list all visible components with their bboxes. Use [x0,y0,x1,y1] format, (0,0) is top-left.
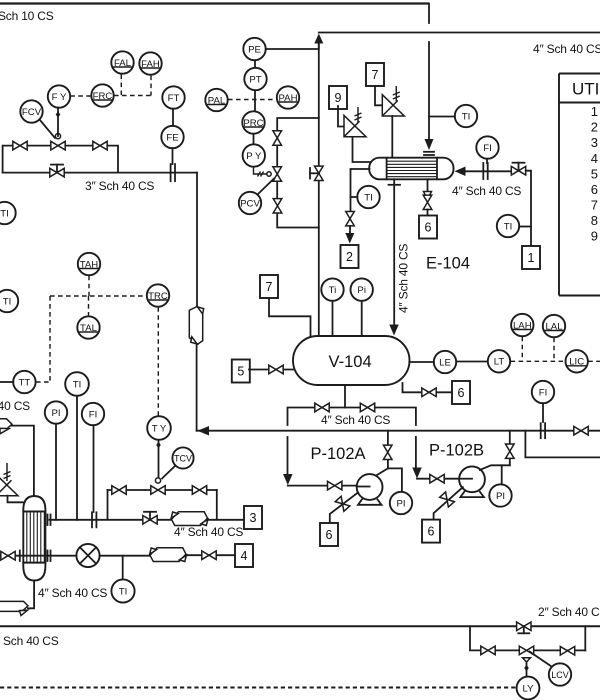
signal dashed bottom [0,687,516,689]
svg-text:F Y: F Y [52,92,67,103]
wire LCV bypass [470,626,585,650]
wire pump B suction drop [415,437,417,468]
svg-text:4″ Sch 40 CS: 4″ Sch 40 CS [397,244,411,313]
svg-text:2″ Sch 40 CS: 2″ Sch 40 CS [538,605,600,619]
svg-text:PT: PT [249,74,261,85]
wire pump B discharge [480,465,510,470]
wire box7 to PSV [375,86,382,105]
control valve FCV body [51,134,65,150]
svg-text:PAL: PAL [208,95,226,106]
wire TT tap [0,381,13,383]
wire bottom PSV outlet [8,496,23,503]
instrument LAL [543,315,565,337]
instrument PY [243,144,265,166]
wire FI stem x93 [93,425,95,512]
instrument PE [243,38,265,60]
svg-text:LAH: LAH [513,320,532,331]
utility box 7 reflux [260,275,278,298]
svg-text:PCV: PCV [240,198,260,209]
instrument FE [161,126,183,148]
utility box 7 relief [366,63,384,86]
flange E-104 top nozzle [424,152,434,155]
wire feed pennant line [11,426,34,495]
wire header branch right [525,431,600,458]
instrument TAL [77,316,99,338]
signal dashed PAL-PAH [228,99,276,101]
arrow up into overhead line [314,34,323,44]
wire vessel right nozzle to LE [409,361,433,363]
wire PRC-PY stem [253,134,255,144]
wire inlet from corner x531 [526,171,531,246]
wire PT-PRC stem [254,90,256,111]
vessel V-104 [293,336,410,385]
valve gate LCV right [560,647,574,656]
valve globe bottom main [517,622,531,633]
svg-text:FI: FI [539,387,548,398]
svg-text:LE: LE [439,357,451,368]
wire LCV signal to LY [526,662,528,677]
instrument LAH [511,314,533,336]
control valve TCV body [151,478,165,494]
spring bottom PSV [6,463,8,481]
wire FE to orifice [172,148,174,164]
spring PSV-7 [395,86,397,102]
instrument FI E104 [476,136,498,158]
wire TI stem x77 [76,396,78,520]
wire pump discharge header y430 [197,430,600,432]
wire FI stem [486,159,488,163]
svg-text:1: 1 [528,251,535,265]
instrument TI x77 [65,372,89,396]
instrument PI x56 [45,401,67,423]
svg-text:TCV: TCV [174,453,192,463]
valve gate pump B discharge [506,444,515,458]
heat exchanger E-104 shell [369,158,453,180]
svg-text:6: 6 [458,386,465,400]
signal diamond FY [56,111,61,117]
instrument PT [244,68,266,90]
arrow inlet into E-104 [455,167,466,177]
wire bottom product line 2in [0,625,600,627]
arrow down into E-104 [425,139,434,150]
wire pump B drain [434,487,463,519]
svg-text:TI: TI [364,192,373,203]
svg-text:TAH: TAH [80,259,99,270]
wire Pi stem [361,301,363,336]
svg-text:FAL: FAL [114,58,132,69]
wire FT-FE stem [172,109,174,126]
svg-text:TI: TI [73,379,82,390]
valve gate pump A discharge [383,445,392,459]
flange exchanger left nozzle [19,551,21,562]
valve gate header right [574,426,588,435]
wire TI stub [429,116,455,118]
wire to box6 [427,210,429,216]
utility box 6 pump B [422,520,440,543]
pump P-102A [357,474,383,505]
svg-text:8: 8 [591,213,598,228]
svg-text:3: 3 [250,511,257,525]
instrument LIC [566,350,588,372]
flange E-104 bottom-left nozzle [389,184,401,186]
svg-text:E-104: E-104 [426,255,470,273]
instrument TI on drop line [455,105,477,127]
svg-text:9: 9 [591,229,598,244]
valve gate suction header left [315,403,329,412]
wire LE-LT [456,361,487,363]
pump P-102B [459,466,485,497]
svg-text:3″ Sch 40 CS: 3″ Sch 40 CS [85,179,154,193]
svg-text:7: 7 [266,280,273,294]
wire TI drop [122,556,124,580]
valve gate upper-left [13,141,27,150]
instrument TI bottom [111,579,134,602]
arrow open down [424,192,432,200]
svg-text:TI: TI [3,296,12,307]
arrow down into box2 [345,233,354,244]
instrument TI left y301 [0,290,18,312]
valve gate E104 inlet w/ handle [511,163,525,175]
wire FCV bypass upper line [3,146,118,173]
wire E-104 bottom-left to V-104 [393,179,395,326]
svg-text:7: 7 [372,68,379,82]
arrow pump B suction [412,468,422,479]
wire PCV actuator link [258,179,275,195]
signal dashed vertical x50 [49,296,51,382]
valve gate pump B drain [440,492,455,507]
orifice flange FI E104 [483,163,487,179]
control valve PCV body [273,167,282,181]
wire PE-PT stem [254,60,256,68]
svg-text:LT: LT [494,357,505,368]
utility box 6 under E-104 [419,216,437,239]
signal dashed TT stub [36,381,50,383]
relief valve PSV-7 [382,95,404,116]
svg-text:TI: TI [119,586,128,597]
wire filter to header elbow [196,344,198,431]
valve globe bottoms [143,512,157,524]
wire after mixer [100,555,151,557]
svg-text:FAH: FAH [141,59,160,70]
svg-text:FI: FI [483,143,492,154]
wire E-104 inlet from right [464,170,512,172]
wire PI stem x56 [55,424,57,520]
svg-text:2: 2 [346,250,353,264]
instrument FI y392 [532,381,554,403]
svg-text:1: 1 [591,104,598,119]
signal dashed FAL drop [120,75,122,96]
svg-text:FCV: FCV [22,107,42,118]
wire overhead to E-104 drop x429 upper [428,4,430,24]
svg-text:V-104: V-104 [329,353,372,371]
mixer circle-X [76,544,99,567]
wire pump A drain [330,493,358,523]
wire E-104 bottom-right branch [427,179,429,192]
orifice flange header FI [541,423,545,438]
wire vessel drain to box6 [403,383,452,392]
signal dashed TRC to TY [157,307,159,416]
instrument LE [434,351,456,373]
valve gate suction header right [360,403,374,412]
svg-text:5: 5 [237,364,244,378]
wire E-104 left outlet to box2 line [351,169,370,212]
wire vessel bottom outlet [344,385,346,408]
svg-text:UTI: UTI [572,80,599,99]
signal dashed TAL rise [88,296,90,316]
inline mixer hexagon 1 [171,512,208,526]
svg-text:4″ Sch 40 CS: 4″ Sch 40 CS [174,525,243,539]
wire Ti stem [332,301,334,336]
svg-text:LY: LY [522,683,534,694]
wire TCV actuator link [162,466,176,479]
control valve LCV body [519,646,533,655]
signal dashed FRC to FAL FAH [114,95,151,97]
vertical exchanger shell [23,496,45,581]
instrument TRC [147,284,169,306]
svg-text:PE: PE [248,44,261,55]
svg-text:Sch 40 CS: Sch 40 CS [3,634,59,648]
wire TCV station main y490 [108,489,217,491]
instrument FY [48,85,70,107]
wire FI stem to orifice [542,403,544,422]
svg-text:TRC: TRC [148,291,168,302]
valve gate before box4 [202,551,216,560]
svg-text:Sch 10 CS: Sch 10 CS [0,9,54,23]
instrument TI at E-104 outlet [357,186,379,208]
svg-text:P Y: P Y [246,151,262,162]
instrument Pi vessel [351,278,373,300]
wire top feed line 2in Sch10 [0,2,429,4]
wire bottom suction header [288,408,416,426]
actuator circle PCV valve [267,172,271,176]
svg-text:6: 6 [591,182,598,197]
svg-text:TT: TT [19,377,31,388]
svg-text:LIC: LIC [569,357,584,368]
utility box 3 [244,506,262,529]
wire valve to arrow [349,226,351,233]
signal dashed LAH drop [521,337,523,362]
valve gate pump B suction [430,474,444,483]
arrow pump A suction [283,474,293,485]
stream flag pennant top [0,419,12,434]
wire box5 to vessel [249,369,294,371]
svg-text:LCV: LCV [551,670,569,680]
signal dashed horizontal y296 [50,295,146,297]
utility box 6 vessel drain [452,381,470,404]
valve gate TCV left [112,486,126,495]
utility box 9 [329,86,347,109]
wire pump A discharge [377,468,402,491]
svg-text:FT: FT [168,93,180,104]
signal dashed TAH drop [88,276,90,296]
relief valve bottom vessel [0,474,18,495]
svg-text:PRC: PRC [243,118,263,129]
valve gate under E-104 [423,195,432,209]
wire PI B stem [501,465,503,484]
valve gate pump A suction [328,481,342,490]
wire PCV bypass [277,118,319,131]
svg-text:Pi: Pi [357,285,366,296]
wire pump A suction drop [287,437,289,474]
wire TI stub3 [519,226,531,228]
utility box 5 [232,360,250,383]
instrument FT [162,86,184,108]
svg-text:P-102B: P-102B [429,442,484,460]
wire TCV bypass risers [107,490,109,520]
wire PSV-9 outlet [353,137,370,162]
instrument TAH [78,253,100,275]
svg-text:4″ Sch 40 CS: 4″ Sch 40 CS [533,42,600,56]
svg-text:4″ Sch 40 CS: 4″ Sch 40 CS [452,184,521,198]
valve gate upper-right [93,141,107,150]
instrument PAH [277,86,299,108]
valve gate vessel drain [422,388,436,397]
svg-text:PI: PI [396,498,405,509]
signal dashed LAL drop [553,338,555,362]
wire PY signal to PCV valve [254,167,267,174]
arrow header into elbow [198,426,210,436]
wire pump B suction horizontal [417,478,460,480]
instrument FRC [91,84,113,106]
wire box9 to PSV [338,106,344,127]
valve gate TCV right [192,486,206,495]
wire box7b to vessel [269,298,311,336]
wire main riser x319 [318,40,320,336]
valve gate bypass bottom [273,199,282,213]
instrument LY [517,677,540,700]
instrument Ti vessel [321,278,343,300]
arrow down into V-104 top [389,325,399,336]
svg-text:9: 9 [335,91,342,105]
instrument TI left edge [0,202,16,224]
svg-text:FI: FI [89,409,98,420]
svg-text:4: 4 [591,151,598,166]
svg-text:PI: PI [51,408,60,419]
wire PSV-7 outlet to E-104 [391,116,393,157]
svg-text:6: 6 [428,524,435,538]
svg-text:TAL: TAL [80,323,98,334]
wire FY signal to valve [57,108,59,136]
orifice flange FI bottom [92,512,96,527]
valve globe lower bypass [50,165,64,177]
wire pump A suction horizontal [288,485,357,487]
valve gate main riser w/ side handle [310,166,323,180]
signal diamond TY [156,442,161,448]
flange exchanger upper right nozzle [48,515,51,526]
instrument TT [13,371,35,393]
utility box 4 [235,544,253,567]
svg-text:TI: TI [504,221,513,232]
signal dashed LIC right [588,360,600,362]
wire exchanger bottom outlet [28,581,34,609]
signal dashed LT-LIC [511,360,566,362]
wire TY signal down [158,440,160,477]
instrument PCV [239,192,261,214]
wire overhead vapor line 4in [319,32,600,34]
instrument PI pump B [489,484,511,506]
utility box 6 pump A [320,523,338,546]
instrument PRC [242,111,264,133]
svg-text:6: 6 [326,528,333,542]
svg-text:4″ Sch 40 CS: 4″ Sch 40 CS [321,413,390,427]
svg-text:TI: TI [0,208,9,219]
svg-text:P-102A: P-102A [311,445,366,463]
orifice flange FE [171,164,175,181]
instrument FAL [111,51,133,73]
svg-text:PAH: PAH [278,93,297,104]
valve gate pump A drain [335,496,350,511]
instrument PI pump A [390,492,412,514]
instrument FAH [139,52,161,74]
svg-text:5: 5 [591,166,598,181]
utility box 1 [522,246,540,269]
instrument TCV [172,447,193,468]
instrument LT [488,350,510,372]
svg-text:7: 7 [591,197,598,212]
actuator funnel LCV [523,658,531,662]
wire coolant line y555.5 [0,555,77,557]
valve gate box5 line [269,365,283,374]
svg-text:FRC: FRC [93,91,113,102]
svg-text:6: 6 [425,220,432,234]
wire PE to riser [266,42,319,49]
valve gate coolant left [1,551,15,560]
wire LCV actuator link [530,652,552,667]
wire FCV main lower line [3,172,197,174]
wire hexagon2 to box4 [186,554,235,556]
svg-text:FE: FE [166,132,178,143]
utility summary table [559,74,600,296]
instrument FCV [20,100,42,122]
instrument LCV [549,663,571,685]
inline mixer hexagon 2 [150,548,187,562]
svg-text:LAL: LAL [545,321,563,332]
instrument TY [147,416,171,440]
svg-text:PI: PI [496,491,505,502]
instrument PAL [205,89,227,111]
valve gate bypass top [273,131,282,145]
instrument TI x531 [497,215,519,237]
signal dashed FAH drop [150,76,152,96]
utility box 2 [341,245,359,268]
inline filter vertical [189,307,203,345]
svg-text:Ti: Ti [329,285,337,296]
svg-text:3: 3 [591,135,598,150]
flange exchanger lower right nozzle [48,551,51,562]
spring PSV-9 [357,107,359,123]
wire FE line drop x196.5 [196,173,198,307]
wire FCV actuator link [40,120,56,139]
wire drop x429 lower [428,42,430,140]
relief valve PSV-9 [344,115,366,136]
svg-text:TI: TI [462,111,471,122]
svg-text:4: 4 [241,549,248,563]
svg-text:2: 2 [591,120,598,135]
valve gate LCV left [481,646,495,655]
stream flag pennant bottom [0,601,28,615]
wire TI stub2 [351,196,358,198]
valve gate box2 line [346,212,355,226]
instrument FI x93 [82,403,104,425]
svg-text:h 40 CS: h 40 CS [0,399,30,413]
svg-text:T Y: T Y [152,423,167,434]
wire bottoms line y519.5 [50,519,244,521]
svg-text:4″ Sch 40 CS: 4″ Sch 40 CS [38,586,107,600]
signal dashed FY-FRC [70,95,91,97]
